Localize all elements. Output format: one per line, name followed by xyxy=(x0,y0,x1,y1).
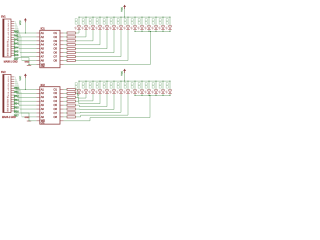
wire LED27 cathode to tie xyxy=(162,94,164,95)
wire R9 to LED cathode xyxy=(75,88,77,90)
junction tie LED26 xyxy=(156,95,157,96)
wire R7 to LED cathode xyxy=(75,56,121,58)
svg-text:O8: O8 xyxy=(54,58,58,62)
label LED27 xyxy=(159,83,161,85)
wire O3 to R3 xyxy=(64,40,67,42)
svg-text:O5: O5 xyxy=(54,103,58,107)
wire bus to LED13 xyxy=(162,17,164,26)
VCC symbol at LED bus xyxy=(123,69,126,71)
wire O1 to R1 xyxy=(64,32,67,34)
svg-text:O1: O1 xyxy=(54,31,58,35)
svg-text:O4: O4 xyxy=(54,99,58,103)
wire bus to LED23 xyxy=(134,81,136,90)
wire bus to LED15 xyxy=(78,81,80,90)
junction VCC bus xyxy=(124,17,125,18)
IC IC2 input pins xyxy=(36,88,39,90)
wire O2 to R2 xyxy=(64,36,67,38)
wire R16 to LED cathode xyxy=(75,116,80,118)
svg-text:O5: O5 xyxy=(54,47,58,51)
LED LED2 xyxy=(84,26,88,29)
wire bus to LED12 xyxy=(155,17,157,26)
connector SV2 pins 1-16 xyxy=(11,76,14,78)
wire bus to LED5 xyxy=(106,17,108,26)
wire LED20 cathode down xyxy=(113,94,115,109)
svg-text:O1: O1 xyxy=(54,87,58,91)
junction bus LED9 xyxy=(135,17,136,18)
wire bus to LED1 xyxy=(78,17,80,26)
wire cathode tie bus xyxy=(135,94,170,96)
VCC symbol near SV1 xyxy=(24,18,27,20)
wire LED21 cathode down xyxy=(120,94,122,112)
wire O4 to R12 xyxy=(64,100,67,102)
IC IC1 body xyxy=(40,30,60,67)
wire R6 to LED cathode xyxy=(75,52,114,54)
label LED5 xyxy=(103,19,105,21)
LED LED16 xyxy=(84,90,88,93)
wire net PB2' xyxy=(14,80,17,82)
svg-text:A5: A5 xyxy=(41,47,45,51)
LED LED23 xyxy=(133,90,137,93)
junction bus LED13 xyxy=(163,17,164,18)
wire bus to LED6 xyxy=(113,17,115,26)
IC IC1 pin O9 xyxy=(60,63,64,65)
LED LED11 xyxy=(147,26,151,29)
svg-text:A8: A8 xyxy=(41,58,45,62)
svg-text:O7: O7 xyxy=(54,111,58,115)
label LED20 xyxy=(110,83,112,85)
wire LED17 cathode down xyxy=(92,94,94,101)
junction bus LED25 xyxy=(149,81,150,82)
wire R8 to LED cathode xyxy=(75,60,128,62)
label LED17 xyxy=(89,83,91,85)
svg-text:A6: A6 xyxy=(41,51,45,55)
svg-text:A3: A3 xyxy=(41,39,45,43)
wire O5 to R5 xyxy=(64,48,67,50)
resistor R3 xyxy=(67,40,75,42)
resistor R14 xyxy=(67,108,75,110)
wire bus to LED19 xyxy=(106,81,108,90)
IC IC1 output pins xyxy=(60,32,64,34)
wire bus to LED2 xyxy=(85,17,87,26)
junction tie LED9 xyxy=(135,31,136,32)
junction bus LED26 xyxy=(156,81,157,82)
label LED26 xyxy=(152,83,154,85)
wire bus to LED22 xyxy=(127,81,129,90)
label LED16 xyxy=(82,83,84,85)
junction bus LED6 xyxy=(114,17,115,18)
svg-text:O3: O3 xyxy=(54,95,58,99)
wire R1 to LED cathode xyxy=(75,32,79,34)
LED LED19 xyxy=(105,90,109,93)
wire LED19 cathode down xyxy=(106,94,108,107)
wire bus to LED21 xyxy=(120,81,122,90)
wire bus to LED4 xyxy=(99,17,101,26)
svg-text:PB0: PB0 xyxy=(14,87,19,90)
junction tie LED10 xyxy=(142,31,143,32)
svg-text:VCC: VCC xyxy=(122,7,124,12)
label LED21 xyxy=(117,83,119,85)
wire net PA0 xyxy=(14,20,15,22)
label LED10 xyxy=(138,19,140,21)
svg-text:A1: A1 xyxy=(41,87,45,91)
wire LED9 cathode to tie xyxy=(134,30,136,31)
wire LED13 cathode to tie xyxy=(162,30,164,31)
junction bus LED24 xyxy=(142,81,143,82)
wire LED23 cathode to tie xyxy=(134,94,136,95)
junction GND/WR xyxy=(29,120,30,121)
resistor R10 xyxy=(67,92,75,94)
wire LED7 cathode down xyxy=(120,30,122,57)
junction tie LED27 xyxy=(163,95,164,96)
junction bus LED1 xyxy=(79,17,80,18)
wire LED26 cathode to tie xyxy=(155,94,157,95)
svg-text:MA08-1 GND: MA08-1 GND xyxy=(2,116,16,119)
junction tie drop xyxy=(150,31,151,32)
junction bus LED15 xyxy=(79,81,80,82)
wire LED3 cathode down xyxy=(92,30,94,41)
ground symbol xyxy=(27,64,31,67)
label LED1 xyxy=(75,19,77,21)
svg-text:MA08-1 GND: MA08-1 GND xyxy=(4,61,18,64)
wire bus to LED16 xyxy=(85,81,87,90)
wire VCC arrow to bus xyxy=(124,73,126,81)
label LED23 xyxy=(131,83,133,85)
junction tie LED25 xyxy=(149,95,150,96)
junction bus LED11 xyxy=(149,17,150,18)
wire bus to LED28 xyxy=(169,81,171,90)
LED LED27 xyxy=(161,90,165,93)
wire LED1 cathode down xyxy=(78,30,80,33)
LED LED21 xyxy=(119,90,123,93)
svg-text:O2: O2 xyxy=(54,35,58,39)
wire LED6 cathode down xyxy=(113,30,115,53)
wire R13 to LED cathode xyxy=(75,104,79,106)
wire LED11 cathode to tie xyxy=(148,30,150,31)
label LED8 xyxy=(124,19,126,21)
junction bus LED2 xyxy=(86,17,87,18)
wire GND net SV2 xyxy=(14,95,16,113)
wire WR to GND xyxy=(29,63,36,65)
wire bus to LED27 xyxy=(162,81,164,90)
wire tie bus to O9 xyxy=(150,31,152,64)
wire LED28 cathode to tie xyxy=(169,94,171,95)
wire bus to LED18 xyxy=(99,81,101,90)
svg-text:O3: O3 xyxy=(54,39,58,43)
wire O6 to R6 xyxy=(64,52,67,54)
svg-text:GND: GND xyxy=(25,62,30,64)
wire O6 to R14 xyxy=(64,108,67,110)
junction bus LED27 xyxy=(163,81,164,82)
wire VCC to net xyxy=(24,78,26,90)
junction bus LED18 xyxy=(100,81,101,82)
junction bus LED22 xyxy=(128,81,129,82)
connector SV2 body xyxy=(3,75,11,113)
resistor R5 xyxy=(67,48,75,50)
IC IC2 output pins xyxy=(60,88,64,90)
wire LED24 cathode to tie xyxy=(141,94,143,95)
wire net PB5' xyxy=(14,87,20,89)
junction bus LED5 xyxy=(107,17,108,18)
wire bus to LED8 xyxy=(127,17,129,26)
resistor R7 xyxy=(67,56,75,58)
junction bus LED28 xyxy=(170,81,171,82)
label LED2 xyxy=(82,19,84,21)
junction bus LED4 xyxy=(100,17,101,18)
junction bus LED21 xyxy=(121,81,122,82)
svg-text:PA7: PA7 xyxy=(14,58,19,61)
resistor R1 xyxy=(67,32,75,34)
IC IC2 body xyxy=(40,87,60,124)
wire LED22 cathode down xyxy=(127,94,129,115)
IC IC1 input pins xyxy=(36,32,39,34)
wire LED10 cathode to tie xyxy=(141,30,143,31)
svg-text:A5: A5 xyxy=(41,103,45,107)
wire LED4 cathode down xyxy=(99,30,101,45)
resistor R11 xyxy=(67,96,75,98)
junction tie LED24 xyxy=(142,95,143,96)
LED LED4 xyxy=(98,26,102,29)
junction tie LED28 xyxy=(170,95,171,96)
wire net PA2 xyxy=(14,25,17,27)
wire LED18 cathode down xyxy=(99,94,101,104)
LED LED24 xyxy=(140,90,144,93)
svg-text:A2: A2 xyxy=(41,91,45,95)
svg-text:O4: O4 xyxy=(54,43,58,47)
svg-text:A8: A8 xyxy=(41,115,45,119)
wire O7 to R7 xyxy=(64,56,67,58)
LED LED12 xyxy=(154,26,158,29)
wire R14 to LED cathode xyxy=(75,108,79,110)
wire R11 to LED cathode xyxy=(75,96,78,98)
junction bus LED19 xyxy=(107,81,108,82)
wire bus to LED17 xyxy=(92,81,94,90)
svg-text:O7: O7 xyxy=(54,54,58,58)
resistor R9 xyxy=(67,88,75,90)
LED LED15 xyxy=(77,90,81,93)
wire bus to LED20 xyxy=(113,81,115,90)
wire VCC bus xyxy=(79,16,170,18)
wire net PA3 xyxy=(14,27,18,29)
wire bus to LED11 xyxy=(148,17,150,26)
wire O8 to R8 xyxy=(64,60,67,62)
wire bus to LED3 xyxy=(92,17,94,26)
IC IC1 pin WR xyxy=(36,63,39,65)
LED LED17 xyxy=(91,90,95,93)
wire GND net SV1 xyxy=(14,40,16,58)
svg-text:A7: A7 xyxy=(41,111,45,115)
wire net PB0' xyxy=(14,76,15,78)
junction VCC xyxy=(25,89,26,90)
wire R12 to LED cathode xyxy=(75,100,79,102)
junction bus LED7 xyxy=(121,17,122,18)
svg-text:OE: OE xyxy=(41,64,45,68)
junction tie LED14 xyxy=(170,31,171,32)
wire R15 to LED cathode xyxy=(75,112,80,114)
wire O1 to R9 xyxy=(64,88,67,90)
wire VCC bus xyxy=(79,80,170,82)
LED LED6 xyxy=(112,26,116,29)
svg-text:A7: A7 xyxy=(41,54,45,58)
svg-text:SV1: SV1 xyxy=(1,16,6,19)
wire LED15 cathode down xyxy=(78,94,80,95)
wire bus to LED7 xyxy=(120,17,122,26)
LED LED8 xyxy=(126,26,130,29)
wire net PB1' xyxy=(14,78,16,80)
svg-text:A1: A1 xyxy=(41,31,45,35)
IC IC2 pin O9 xyxy=(60,120,64,122)
junction tie LED11 xyxy=(149,31,150,32)
wire net PA4 xyxy=(14,29,19,31)
wire LED25 cathode to tie xyxy=(148,94,150,95)
wire LED2 cathode down xyxy=(85,30,87,37)
label LED18 xyxy=(96,83,98,85)
svg-text:O6: O6 xyxy=(54,51,58,55)
junction bus LED3 xyxy=(93,17,94,18)
junction VCC bus xyxy=(124,81,125,82)
wire net PA5 xyxy=(14,32,20,34)
wire R10 to LED cathode xyxy=(75,92,78,94)
label LED14 xyxy=(166,19,168,21)
svg-text:A3: A3 xyxy=(41,95,45,99)
wire net PB6' xyxy=(14,90,21,92)
wire R3 to LED cathode xyxy=(75,40,93,42)
wire net PA7 xyxy=(14,36,22,38)
junction tie drop xyxy=(150,95,151,96)
svg-text:A2: A2 xyxy=(41,35,45,39)
wire bus to LED9 xyxy=(134,17,136,26)
svg-text:VCC: VCC xyxy=(122,71,124,76)
svg-text:GND: GND xyxy=(25,117,30,119)
resistor R2 xyxy=(67,36,75,38)
LED LED1 xyxy=(77,26,81,29)
wire LED5 cathode down xyxy=(106,30,108,49)
junction bus LED14 xyxy=(170,17,171,18)
junction VCC xyxy=(25,33,26,34)
resistor R16 xyxy=(67,116,75,118)
wire LED8 cathode down xyxy=(127,30,129,60)
svg-text:PB1: PB1 xyxy=(14,91,19,94)
resistor R6 xyxy=(67,52,75,54)
wire O2 to R10 xyxy=(64,92,67,94)
wire O8 to R16 xyxy=(64,116,67,118)
junction bus LED20 xyxy=(114,81,115,82)
VCC symbol at LED bus xyxy=(123,5,126,7)
junction tie LED13 xyxy=(163,31,164,32)
wire O5 to R13 xyxy=(64,104,67,106)
LED LED20 xyxy=(112,90,116,93)
resistor R13 xyxy=(67,104,75,106)
svg-text:OE: OE xyxy=(41,121,45,125)
wire LED14 cathode to tie xyxy=(169,30,171,31)
label LED6 xyxy=(110,19,112,21)
wire tie bus to O9 xyxy=(149,95,151,117)
wire VCC arrow to bus xyxy=(124,9,126,17)
VCC symbol near SV2 xyxy=(24,74,27,76)
wire O7 to R15 xyxy=(64,112,67,114)
LED LED7 xyxy=(119,26,123,29)
junction bus LED16 xyxy=(86,81,87,82)
wire net PA6 xyxy=(14,34,21,36)
junction tie LED23 xyxy=(135,95,136,96)
svg-text:O2: O2 xyxy=(54,91,58,95)
wire cathode tie bus xyxy=(135,30,170,32)
svg-text:PA0: PA0 xyxy=(14,31,19,34)
IC IC2 pin WR xyxy=(36,120,39,122)
label LED3 xyxy=(89,19,91,21)
junction tie LED12 xyxy=(156,31,157,32)
wire R4 to LED cathode xyxy=(75,44,100,46)
label LED12 xyxy=(152,19,154,21)
connector SV1 body xyxy=(3,19,11,57)
label LED25 xyxy=(145,83,147,85)
wire O4 to R4 xyxy=(64,44,67,46)
LED LED9 xyxy=(133,26,137,29)
wire O3 to R11 xyxy=(64,96,67,98)
LED LED10 xyxy=(140,26,144,29)
resistor R8 xyxy=(67,59,75,61)
wire R5 to LED cathode xyxy=(75,48,107,50)
connector SV1 pins 1-16 xyxy=(11,20,14,22)
svg-text:16: 16 xyxy=(7,111,9,113)
label LED11 xyxy=(145,19,147,21)
wire LED12 cathode to tie xyxy=(155,30,157,31)
svg-text:VCC: VCC xyxy=(20,20,22,25)
label LED28 xyxy=(166,83,168,85)
LED LED18 xyxy=(98,90,102,93)
label LED19 xyxy=(103,83,105,85)
label LED9 xyxy=(131,19,133,21)
label LED24 xyxy=(138,83,140,85)
label LED4 xyxy=(96,19,98,21)
wire bus to LED25 xyxy=(148,81,150,90)
label LED7 xyxy=(117,19,119,21)
junction GND/WR xyxy=(29,64,30,65)
svg-text:A4: A4 xyxy=(41,43,45,47)
wire net PA1 xyxy=(14,23,16,25)
junction bus LED8 xyxy=(128,17,129,18)
LED LED22 xyxy=(126,90,130,93)
svg-text:A6: A6 xyxy=(41,107,45,111)
wire bus to LED14 xyxy=(169,17,171,26)
LED LED5 xyxy=(105,26,109,29)
LED LED26 xyxy=(154,90,158,93)
label LED22 xyxy=(124,83,126,85)
LED LED13 xyxy=(161,26,165,29)
wire bus to LED26 xyxy=(155,81,157,90)
wire net PB4' xyxy=(14,85,19,87)
svg-text:O8: O8 xyxy=(54,115,58,119)
svg-text:SV2: SV2 xyxy=(1,71,6,74)
LED LED28 xyxy=(168,90,172,93)
label LED13 xyxy=(159,19,161,21)
junction bus LED12 xyxy=(156,17,157,18)
svg-text:O6: O6 xyxy=(54,107,58,111)
svg-text:16: 16 xyxy=(7,55,9,57)
label LED15 xyxy=(75,83,77,85)
wire VCC to net xyxy=(24,22,26,33)
resistor R15 xyxy=(67,112,75,114)
wire net PB7' xyxy=(14,92,22,94)
wire bus to LED10 xyxy=(141,17,143,26)
LED LED14 xyxy=(168,26,172,29)
wire net PB3' xyxy=(14,83,18,85)
LED LED25 xyxy=(147,90,151,93)
junction bus LED17 xyxy=(93,81,94,82)
resistor R12 xyxy=(67,100,75,102)
wire bus to LED24 xyxy=(141,81,143,90)
svg-text:VCC: VCC xyxy=(20,75,22,80)
wire LED16 cathode down xyxy=(85,94,87,98)
